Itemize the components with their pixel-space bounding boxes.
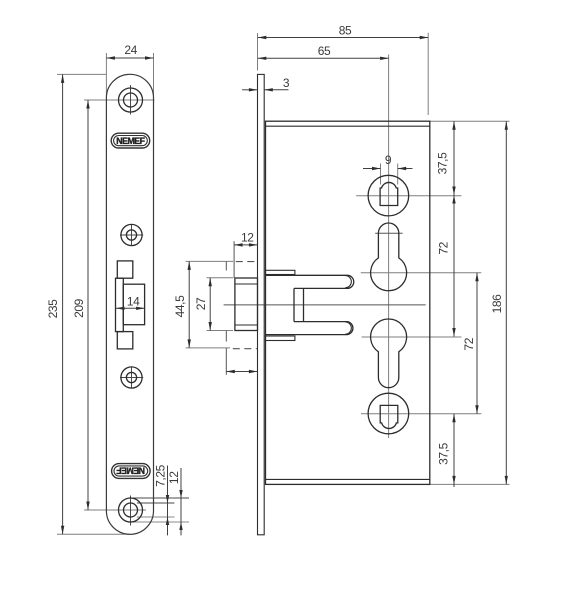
- svg-text:44,5: 44,5: [173, 295, 187, 317]
- svg-text:37,5: 37,5: [437, 442, 451, 464]
- svg-text:27: 27: [194, 297, 208, 310]
- svg-text:209: 209: [72, 298, 86, 318]
- svg-text:72: 72: [462, 337, 476, 350]
- svg-text:65: 65: [318, 44, 331, 58]
- svg-text:12: 12: [241, 231, 254, 245]
- svg-text:186: 186: [490, 294, 504, 314]
- svg-text:NEMEF: NEMEF: [116, 466, 145, 476]
- svg-text:37,5: 37,5: [436, 152, 450, 174]
- svg-text:12: 12: [167, 471, 181, 484]
- svg-text:9: 9: [385, 153, 392, 167]
- svg-text:14: 14: [127, 295, 140, 309]
- svg-text:NEMEF: NEMEF: [116, 136, 145, 146]
- svg-text:7,25: 7,25: [154, 464, 168, 486]
- svg-text:85: 85: [339, 23, 352, 37]
- svg-text:24: 24: [124, 43, 137, 57]
- svg-text:235: 235: [46, 299, 60, 319]
- svg-text:72: 72: [437, 241, 451, 254]
- svg-text:3: 3: [283, 76, 290, 90]
